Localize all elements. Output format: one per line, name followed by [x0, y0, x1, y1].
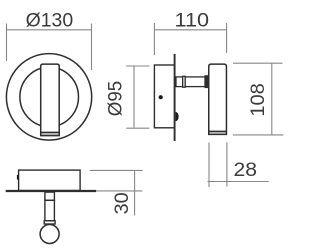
dimension Ø130 line — [7, 29, 92, 31]
nub on box left edge — [17, 175, 19, 180]
dimension Ø130 extension line right — [91, 24, 93, 70]
lamp head cylinder — [208, 64, 227, 134]
svg-text:Ø95: Ø95 — [104, 81, 126, 117]
arm ring — [183, 76, 186, 87]
arm long section — [185, 77, 205, 87]
svg-text:28: 28 — [234, 159, 258, 181]
outer circle Ø130 — [6, 54, 91, 140]
dimension 108 top tick — [233, 62, 283, 64]
stem upper section — [45, 192, 55, 200]
switch bump on disc — [176, 112, 179, 121]
dimension 30 line — [134, 170, 136, 215]
dimension 28 extension line right — [226, 143, 228, 187]
dimension 110 extension line left — [153, 23, 155, 55]
wall box (bottom view) — [19, 170, 81, 190]
svg-text:110: 110 — [175, 10, 210, 32]
svg-text:30: 30 — [111, 192, 133, 214]
svg-text:108: 108 — [247, 83, 269, 117]
dimension 28 line — [208, 181, 269, 183]
dimension 110 extension line right — [226, 23, 228, 53]
dimension Ø95 line — [133, 66, 135, 128]
dimension 108 line — [271, 63, 273, 135]
arm end cap (dark) — [205, 76, 208, 88]
dimension 110 line — [154, 29, 226, 31]
bulb knob — [40, 225, 59, 244]
svg-text:Ø130: Ø130 — [26, 10, 74, 32]
inner circle Ø95 — [20, 67, 79, 127]
screw dot on box — [159, 95, 163, 99]
backplate disc edge-on line (bottom view) — [6, 190, 97, 192]
dimension 108 bottom tick — [233, 134, 284, 136]
wall box (side view) — [154, 65, 174, 128]
lamp arm (front view vertical body) — [40, 64, 60, 135]
arm stub — [176, 77, 183, 87]
dimension 30 top tick — [90, 169, 143, 171]
dimension Ø130 extension line left — [6, 24, 8, 61]
dimension 30 bottom tick — [97, 190, 143, 192]
dimension 28 extension line left — [208, 143, 210, 188]
backplate disc edge-on line — [174, 54, 176, 141]
dimension Ø95 top tick — [126, 65, 149, 67]
stem lower section — [45, 200, 55, 221]
stem bottom collar — [44, 221, 55, 224]
dimension Ø95 bottom tick — [126, 127, 149, 129]
